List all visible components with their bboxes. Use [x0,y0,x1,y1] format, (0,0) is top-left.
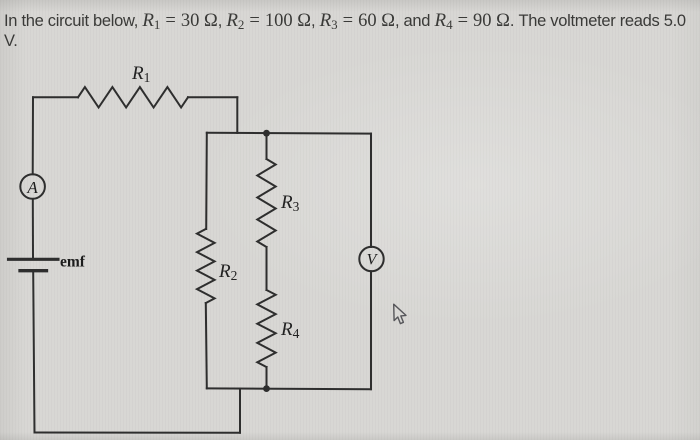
wire: middle branch lower lead from R4 to bottom junction [266,367,268,389]
wire: feed-up from bottom wire to inner loop bottom edge [239,389,241,433]
wire: feed-down from top wire to inner loop top edge [236,97,238,133]
resistor R2 [197,229,215,303]
wire: middle branch upper lead from top junction to R3 [266,133,268,159]
svg-text:R4: R4 [280,319,300,341]
battery emf (long plate) [9,258,59,261]
battery emf (short plate) [20,269,47,272]
wire: battery to bottom-left corner [33,272,34,432]
resistor R3 [257,159,275,247]
resistor R1 [78,87,188,107]
wire: R2 branch lower lead [206,303,207,388]
wire: left side from top-left corner down to ammeter [32,97,34,174]
wire: top side, left segment from top-left corner to R1 [33,96,78,98]
svg-text:R2: R2 [218,261,237,283]
wire: voltmeter branch upper lead [370,134,372,247]
wire: R2 branch upper lead [205,133,208,229]
svg-text:V: V [367,252,379,269]
node: bottom junction dot [263,385,270,392]
wire: inner loop top edge [207,132,371,135]
svg-text:emf: emf [60,254,86,271]
resistor R4 [257,290,275,367]
node: top junction dot [263,130,270,137]
wire: bottom side of outer loop [35,432,241,434]
mouse cursor [394,304,406,323]
ammeter A [20,174,45,199]
wire: top side, right segment from R1 to feed corner [188,96,237,98]
wire: middle branch between R3 and R4 [266,247,268,290]
wire: inner loop bottom edge [207,387,371,390]
problem statement text [4,11,698,53]
svg-text:A: A [26,178,38,197]
svg-text:R3: R3 [280,192,300,214]
wire: ammeter to battery positive plate [32,199,34,258]
voltmeter V [359,247,383,271]
svg-text:R1: R1 [131,63,150,85]
wire: voltmeter branch lower lead [370,271,372,389]
